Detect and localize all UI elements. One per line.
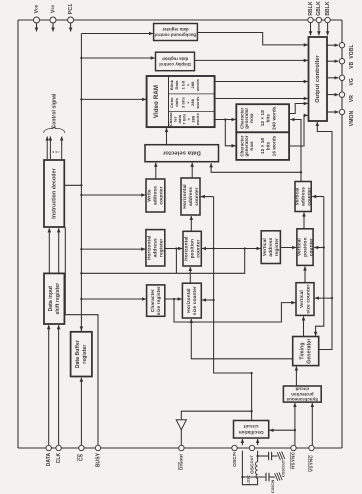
svg-text:data register: data register: [162, 27, 189, 32]
svg-text:CLK: CLK: [56, 452, 62, 463]
block Horizontal position counter: [183, 231, 201, 266]
svg-text:address: address: [268, 237, 274, 256]
svg-text:DATA: DATA: [46, 452, 52, 466]
pin PC1: [68, 4, 74, 32]
block Data input shift register: [44, 273, 64, 324]
wire CS to data buffer register: [80, 378, 82, 446]
wire bus to Display register: [80, 57, 155, 59]
svg-text:LOSC: LOSC: [246, 475, 251, 485]
wire OSCOUT to oscillation circuit: [257, 439, 259, 445]
wire RAM output to output controller: [289, 115, 308, 146]
wire vertical address counter to ROM: [290, 120, 302, 182]
svg-text:register: register: [82, 345, 88, 364]
pin OSCIN: [232, 445, 238, 467]
pin CLK: [56, 445, 62, 463]
wire bus long branch to vertical register path: [80, 247, 246, 274]
svg-text:12 × 18: 12 × 18: [260, 138, 265, 154]
pin VDD: [34, 4, 40, 31]
wire control signal ellipsis dashed: [53, 151, 60, 153]
svg-text:PC1: PC1: [68, 4, 74, 14]
wire control signal arrow 1: [47, 137, 50, 160]
svg-text:Data Buffer: Data Buffer: [75, 340, 81, 368]
svg-text:counter: counter: [194, 187, 200, 205]
svg-text:Generator: Generator: [306, 338, 312, 363]
wire horizontal address counter to data selector: [191, 163, 193, 178]
wire character data branch to generator RAM: [225, 120, 235, 146]
wire instruction decoder to bus: [64, 184, 82, 186]
svg-text:RAM: RAM: [249, 141, 254, 150]
wire inverter to DISout pin: [180, 430, 182, 446]
svg-text:DISout: DISout: [179, 454, 185, 470]
wire bus to Video RAM: [80, 98, 146, 100]
wire bus into Data buffer register: [80, 326, 82, 331]
pin VB: [327, 59, 355, 69]
wire data selector to Video RAM: [166, 128, 168, 145]
svg-text:Video RAM: Video RAM: [153, 85, 160, 118]
svg-text:circuit: circuit: [295, 387, 309, 392]
svg-text:ROM: ROM: [249, 114, 254, 123]
pin VSYNC: [309, 445, 315, 472]
wire bus to Write address counter: [80, 194, 145, 196]
pin VG: [327, 75, 355, 85]
svg-text:position: position: [302, 237, 308, 256]
wire timing generator to output controller and vertical size counter: [317, 122, 333, 350]
wire control signal arrow 2: [61, 137, 63, 160]
wire instruction bus vertical: [80, 34, 82, 332]
svg-text:12 × 18: 12 × 18: [260, 110, 265, 126]
pin CS: [79, 445, 85, 461]
wire right border: [341, 20, 343, 448]
block Timing Generator: [293, 337, 319, 366]
wire register row branch down to long bus wire: [175, 249, 177, 274]
wire horizontal position counter to vertical address register: [201, 247, 260, 249]
wire character size register to horizontal size counter: [165, 298, 182, 300]
svg-text:RBLK: RBLK: [308, 1, 314, 16]
pin VSS: [50, 4, 56, 31]
svg-text:position: position: [189, 239, 195, 258]
svg-text:COSCOUT: COSCOUT: [281, 460, 286, 477]
svg-text:address: address: [153, 186, 159, 205]
svg-text:Output controller: Output controller: [315, 55, 321, 103]
wire vertical address counter feedback to timing generator: [312, 197, 324, 336]
svg-text:data register: data register: [162, 57, 189, 62]
svg-text:Horizontal: Horizontal: [186, 288, 192, 312]
wire shift register to instruction decoder 2: [58, 228, 60, 273]
svg-text:address: address: [188, 187, 194, 206]
svg-text:Instruction decoder: Instruction decoder: [52, 168, 58, 218]
svg-text:Background control: Background control: [155, 33, 196, 38]
block Data Buffer register: [71, 332, 92, 377]
block Vertical position counter: [296, 229, 314, 266]
wire BUSY to instruction decoder: [65, 227, 98, 445]
svg-text:words: words: [195, 78, 200, 92]
svg-text:VMON: VMON: [349, 111, 355, 127]
block Instruction decoder: [44, 160, 64, 227]
wire bus to Background register: [81, 33, 152, 35]
svg-text:BUSY: BUSY: [95, 452, 101, 467]
svg-text:CS: CS: [79, 453, 85, 461]
block Character size register: [147, 285, 165, 316]
block Vertical size counter: [296, 283, 314, 316]
brace control signal group: [44, 127, 65, 133]
wire blink data to output controller: [215, 81, 308, 83]
svg-text:Data: Data: [174, 80, 179, 90]
block Horizontal address register: [146, 230, 165, 266]
block Vertical address counter: [294, 182, 312, 212]
svg-text:Horizontal: Horizontal: [147, 236, 153, 260]
wire VSYNC to sync protection: [311, 403, 313, 445]
block Oscillation circuit: [234, 421, 269, 439]
pin DATA: [46, 445, 52, 466]
wire color data to output controller: [215, 98, 308, 100]
wire vertical position counter to address counter: [303, 213, 305, 229]
svg-text:Data selector: Data selector: [162, 150, 201, 156]
svg-text:Vertical: Vertical: [299, 290, 305, 308]
svg-text:counter: counter: [159, 186, 165, 204]
wire bus to Character size register: [80, 298, 146, 300]
svg-text:size register: size register: [156, 286, 162, 315]
svg-text:COSCIN: COSCIN: [270, 479, 275, 493]
svg-text:address: address: [153, 238, 159, 257]
svg-text:VSYNC: VSYNC: [309, 455, 315, 472]
svg-text:VR: VR: [349, 95, 355, 102]
wire top supply rail: [18, 19, 342, 21]
svg-text:Vertical: Vertical: [294, 188, 300, 206]
block Character generator RAM: [236, 132, 289, 160]
pin RBLK: [308, 1, 314, 35]
pin GBLK: [316, 1, 322, 35]
wire bottom rail: [18, 447, 342, 449]
block Output controller: [309, 37, 328, 121]
svg-text:size counter: size counter: [192, 286, 198, 315]
block Character generator ROM: [236, 104, 289, 132]
svg-text:shift register: shift register: [55, 283, 61, 315]
wire vertical size counter to position counter: [304, 266, 306, 282]
svg-text:16 words: 16 words: [272, 135, 277, 156]
svg-text:counter: counter: [306, 187, 312, 205]
pin BBLK: [325, 1, 331, 35]
block Data selector: [145, 145, 219, 162]
svg-text:Vertical: Vertical: [296, 238, 302, 256]
svg-text:Control signal: Control signal: [51, 93, 57, 129]
pin BUSY: [95, 445, 101, 467]
wire OSCIN external: [241, 451, 257, 485]
svg-text:size counter: size counter: [305, 284, 311, 313]
svg-text:data: data: [174, 98, 179, 107]
block Background control data register: [154, 24, 198, 41]
block Video RAM: [147, 76, 215, 127]
wire junction down to oscillator and DISout: [214, 197, 253, 420]
wire DATA to shift register: [48, 325, 50, 445]
wire horizontal position counter to horizontal address counter: [190, 216, 192, 231]
block Display control data register: [156, 52, 195, 70]
block Horizontal size counter: [182, 283, 201, 318]
wire OSCIN to oscillation circuit: [241, 439, 243, 445]
svg-text:VOBL: VOBL: [349, 44, 355, 58]
block Horizontal address counter: [181, 178, 200, 215]
capacitor CoscOUT: [258, 452, 278, 460]
wire timing generator to vertical size counter: [303, 316, 305, 336]
wire bus to Horizontal address register: [80, 248, 145, 250]
wire ROM output to output controller: [289, 104, 308, 114]
svg-text:240 words: 240 words: [272, 106, 277, 130]
svg-text:words: words: [195, 96, 200, 110]
wire write address counter to data selector: [155, 163, 157, 179]
block Write address counter: [146, 179, 165, 212]
svg-text:circuit: circuit: [243, 424, 258, 429]
wire HSYNC to sync protection and oscillation circuit: [270, 403, 297, 445]
svg-text:Oscillation: Oscillation: [239, 430, 264, 435]
block Synchroneous protection circuit: [283, 386, 321, 402]
svg-text:Vertical: Vertical: [262, 238, 268, 256]
wire CLK to shift register: [58, 325, 60, 445]
wire branch to vertical size counter right edge: [315, 297, 332, 299]
svg-text:address: address: [300, 187, 306, 206]
svg-text:GBLK: GBLK: [316, 1, 322, 16]
block Vertical address register: [261, 231, 280, 264]
wire timing generator to horizontal size counter: [191, 319, 292, 359]
wire vertical position counter junction: [314, 246, 325, 248]
svg-text:words: words: [195, 112, 200, 126]
svg-text:counter: counter: [195, 239, 201, 257]
svg-text:Character: Character: [150, 289, 156, 312]
wire branch to DISout inverter: [181, 411, 251, 419]
svg-text:HSYNC: HSYNC: [291, 451, 297, 469]
svg-text:VB: VB: [349, 61, 355, 68]
svg-text:counter: counter: [308, 238, 314, 256]
pin OSCOUT: [249, 445, 255, 474]
svg-text:register: register: [274, 238, 280, 256]
svg-text:VG: VG: [349, 78, 355, 85]
wire vertical line into horizontal size counter right edge: [202, 299, 215, 301]
wire Display register to output controller: [195, 59, 308, 61]
capacitor CoscIN: [242, 473, 275, 481]
pin VOBL: [327, 43, 355, 59]
pin VMON: [327, 109, 355, 126]
ground CoscIN: [275, 472, 283, 480]
pin VR: [327, 92, 355, 102]
wire horizontal address register to position counter: [165, 247, 183, 249]
wire feedback to horizontal address counter: [201, 196, 214, 198]
pin HSYNC: [291, 445, 297, 469]
svg-text:Horizontal: Horizontal: [182, 184, 188, 208]
wire left border: [17, 20, 19, 448]
wire Background register to output controller: [197, 33, 307, 45]
svg-text:Data input: Data input: [48, 286, 54, 312]
wire sync protection to timing generator: [295, 367, 297, 386]
wire vertical address line to data selector: [211, 163, 301, 172]
inductor LOSC: [256, 462, 258, 479]
svg-text:BBLK: BBLK: [325, 1, 331, 16]
pin DISout: [179, 445, 185, 470]
svg-text:bits: bits: [266, 114, 271, 123]
svg-text:Timing: Timing: [300, 342, 306, 359]
wire vertical address register to position counter: [280, 247, 296, 249]
wire character size register to vertical size counter: [174, 299, 295, 322]
wire OSCOUT external: [256, 451, 258, 462]
svg-text:bits: bits: [266, 141, 271, 150]
svg-text:Horizontal: Horizontal: [183, 236, 189, 260]
wire character data to generator ROM: [215, 118, 236, 120]
inverter DISout driver: [176, 420, 186, 430]
wire horizontal size counter to position counter: [189, 267, 191, 283]
svg-text:register: register: [159, 239, 165, 257]
wire shift register to instruction decoder 1: [48, 228, 50, 273]
svg-text:Write: Write: [147, 189, 153, 202]
svg-text:Display control: Display control: [159, 62, 191, 67]
ground CoscOUT: [277, 451, 285, 459]
